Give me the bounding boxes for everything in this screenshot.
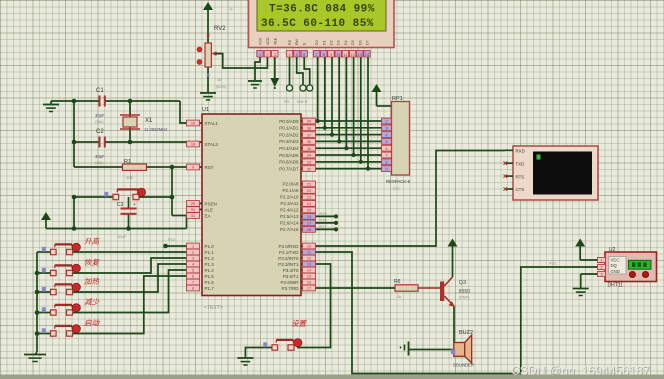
svg-text:D0: D0 [315,40,319,45]
svg-text:6: 6 [192,275,194,279]
svg-text:D1: D1 [322,40,326,45]
svg-text:P2.2/A10: P2.2/A10 [280,195,299,200]
svg-text:VSS: VSS [259,37,263,45]
svg-text:加热: 加热 [84,277,99,286]
svg-text:VDD: VDD [266,37,270,45]
svg-text:1: 1 [192,245,194,249]
svg-text:(50%): (50%) [216,85,227,89]
svg-text:13: 13 [358,53,362,57]
svg-text:启动: 启动 [84,319,100,328]
svg-text:12: 12 [350,53,354,57]
svg-text:RXD: RXD [516,149,525,154]
svg-text:24: 24 [307,202,311,206]
svg-text:30pF: 30pF [95,113,105,118]
svg-text:34: 34 [307,154,311,158]
svg-text:5: 5 [296,53,298,57]
svg-text:P31: P31 [549,261,557,266]
svg-text:VEE: VEE [273,37,277,45]
svg-text:BUZ2: BUZ2 [459,330,473,336]
svg-text:9: 9 [330,53,332,57]
svg-text:P0.5/AD5: P0.5/AD5 [279,153,299,158]
svg-text:P2.5/A13: P2.5/A13 [280,214,299,219]
svg-text:<TEXT>: <TEXT> [204,305,223,311]
svg-text:RP1: RP1 [392,96,403,102]
svg-text:P3.3/INT1: P3.3/INT1 [278,262,299,267]
svg-text:R6: R6 [394,279,401,285]
svg-text:P0.0/AD0: P0.0/AD0 [279,119,299,124]
svg-text:12: 12 [307,257,311,261]
svg-text:16: 16 [307,281,311,285]
svg-text:27: 27 [307,222,311,226]
svg-text:D6: D6 [358,40,362,45]
svg-text:EA: EA [205,213,211,218]
svg-text:37: 37 [307,133,311,137]
svg-text:+: + [133,202,136,208]
svg-text:RW: RW [295,38,299,45]
svg-text:11.0592MHz: 11.0592MHz [144,127,167,132]
svg-text:P0.1/AD1: P0.1/AD1 [279,126,299,131]
svg-text:P1.7: P1.7 [205,286,215,291]
svg-text:P3.4/T0: P3.4/T0 [283,268,299,273]
svg-text:31: 31 [191,214,195,218]
svg-text:2: 2 [192,251,194,255]
svg-text:5: 5 [385,140,387,144]
svg-text:RST: RST [205,165,214,170]
svg-text:7: 7 [192,281,194,285]
svg-text:DQ: DQ [611,263,618,268]
svg-text:14: 14 [307,269,311,273]
svg-text:P3.5/T1: P3.5/T1 [283,274,299,279]
svg-text:(30p): (30p) [95,161,103,165]
svg-text:18: 18 [191,143,195,147]
svg-text:R1: R1 [124,159,131,165]
svg-text:4: 4 [385,133,387,137]
svg-text:PSEN: PSEN [205,201,217,206]
svg-text:10k: 10k [126,175,134,180]
svg-text:升高: 升高 [84,237,100,246]
svg-text:P0.4/AD4: P0.4/AD4 [279,146,299,151]
svg-text:(L: (L [230,6,234,11]
svg-text:RV2: RV2 [214,26,226,32]
svg-text:P2.6/A14: P2.6/A14 [280,221,299,226]
svg-text:11: 11 [307,251,311,255]
svg-text:P1.0: P1.0 [205,244,215,249]
svg-text:2: 2 [600,265,602,269]
svg-text:26: 26 [307,215,311,219]
svg-text:P27: P27 [320,224,328,229]
svg-text:P26: P26 [320,217,328,222]
svg-text:1: 1 [600,258,602,262]
svg-text:P3.0/RXD: P3.0/RXD [278,244,299,249]
svg-text:30: 30 [191,208,195,212]
svg-text:3: 3 [192,257,194,261]
svg-text:9: 9 [192,166,194,170]
svg-text:RESPACK-8: RESPACK-8 [386,179,411,184]
svg-text:8: 8 [323,53,325,57]
svg-text:2: 2 [266,53,268,57]
svg-text:3: 3 [274,53,276,57]
svg-text:23: 23 [307,196,311,200]
svg-text:14: 14 [365,53,369,57]
svg-text:30pF: 30pF [95,154,105,159]
svg-text:SOUNDER: SOUNDER [453,363,474,368]
svg-text:P0.3/AD3: P0.3/AD3 [279,139,299,144]
svg-text:19: 19 [191,122,195,126]
svg-text:P2.1/A9: P2.1/A9 [282,188,299,193]
svg-text:D3: D3 [337,40,341,45]
svg-text:3: 3 [600,272,602,276]
svg-text:8: 8 [192,287,194,291]
svg-text:P0.6/AD6: P0.6/AD6 [279,160,299,165]
svg-text:32: 32 [307,167,311,171]
svg-text:1k: 1k [397,294,401,299]
svg-text:P3.2/INT0: P3.2/INT0 [278,256,299,261]
svg-text:38: 38 [307,127,311,131]
svg-text:1: 1 [259,53,261,57]
svg-text:DHT11: DHT11 [608,283,624,289]
svg-text:TXD: TXD [516,161,525,166]
svg-text:4: 4 [288,53,290,57]
svg-text:39: 39 [307,120,311,124]
svg-text:P1.1: P1.1 [205,250,215,255]
svg-text:35: 35 [307,147,311,151]
svg-text:36: 36 [307,140,311,144]
svg-text:4: 4 [192,263,194,267]
svg-text:P3.1/TXD: P3.1/TXD [279,250,299,255]
svg-text:10uF: 10uF [117,234,127,239]
svg-text:7: 7 [385,154,387,158]
svg-text:3: 3 [385,127,387,131]
svg-text:(30p): (30p) [95,120,103,124]
svg-text:P1.4: P1.4 [205,268,215,273]
svg-text:T=36.8C 084 99%: T=36.8C 084 99% [269,4,375,16]
svg-text:15: 15 [307,275,311,279]
svg-text:设置: 设置 [291,319,307,328]
svg-text:Q3: Q3 [459,280,466,286]
svg-text:D7: D7 [366,40,370,45]
svg-text:P25: P25 [320,211,328,216]
svg-text:8550: 8550 [459,289,470,295]
svg-text:8: 8 [385,161,387,165]
svg-text:P2.0/A8: P2.0/A8 [282,182,299,187]
svg-text:X1: X1 [145,118,153,124]
svg-text:9: 9 [385,167,387,171]
svg-text:13: 13 [307,263,311,267]
svg-text:RS: RS [284,99,290,104]
svg-text:P2.3/A11: P2.3/A11 [280,201,299,206]
svg-text:28: 28 [307,228,311,232]
svg-text:7: 7 [316,53,318,57]
svg-text:2: 2 [385,120,387,124]
svg-text:CTS: CTS [516,187,525,192]
svg-text:29: 29 [191,202,195,206]
svg-text:11: 11 [343,53,347,57]
svg-text:10: 10 [336,53,340,57]
svg-text:D2: D2 [330,40,334,45]
svg-text:ALE: ALE [205,207,214,212]
svg-text:GND: GND [611,269,620,274]
svg-text:6: 6 [385,147,387,151]
svg-text:10: 10 [307,245,311,249]
svg-text:P1.2: P1.2 [205,256,215,261]
svg-text:(PNP): (PNP) [459,296,470,300]
svg-text:减少: 减少 [84,298,99,307]
svg-text:P1.6: P1.6 [205,280,215,285]
svg-text:D5: D5 [351,40,355,45]
svg-text:P0.2/AD2: P0.2/AD2 [279,132,299,137]
svg-text:(1k): (1k) [393,187,400,191]
svg-text:C3: C3 [117,202,124,208]
svg-text:恢复: 恢复 [84,258,100,267]
svg-text:P2.4/A12: P2.4/A12 [280,208,299,213]
svg-text:6: 6 [303,53,305,57]
svg-text:36.5C 60-110 85%: 36.5C 60-110 85% [261,18,374,30]
svg-text:VCC: VCC [611,258,620,263]
svg-text:U1: U1 [202,107,209,113]
svg-text:U2: U2 [609,247,616,253]
svg-text:RTS: RTS [516,174,525,179]
svg-text:D4: D4 [344,40,348,45]
svg-text:1k: 1k [217,77,221,82]
svg-text:25: 25 [307,209,311,213]
svg-text:C2: C2 [96,129,104,135]
svg-text:RS: RS [288,39,292,45]
svg-text:22: 22 [307,189,311,193]
svg-text:17: 17 [307,287,311,291]
svg-text:XTAL1: XTAL1 [205,121,219,126]
svg-text:P10: P10 [168,237,176,242]
svg-text:RW E: RW E [297,99,308,104]
svg-text:P2.7/A15: P2.7/A15 [280,227,299,232]
svg-text:C1: C1 [96,88,104,94]
svg-text:P1.3: P1.3 [205,262,215,267]
svg-text:P0.7/AD7: P0.7/AD7 [279,166,299,171]
svg-text:P1.5: P1.5 [205,274,215,279]
svg-text:33: 33 [307,161,311,165]
svg-text:XTAL2: XTAL2 [205,142,219,147]
svg-text:21: 21 [307,183,311,187]
svg-text:P3.7/RD: P3.7/RD [281,286,299,291]
svg-text:5: 5 [192,269,194,273]
svg-text:P3.6/WR: P3.6/WR [280,280,299,285]
